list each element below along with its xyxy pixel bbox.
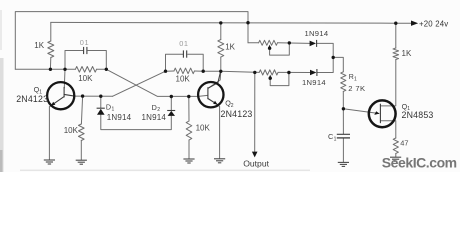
svg-text:2N4123: 2N4123 — [221, 109, 253, 119]
svg-text:2: 2 — [231, 103, 234, 109]
svg-text:D: D — [152, 103, 157, 112]
svg-text:1K: 1K — [34, 41, 44, 50]
svg-text:1: 1 — [39, 89, 42, 95]
svg-text:1: 1 — [334, 136, 337, 142]
svg-text:01: 01 — [80, 38, 89, 47]
svg-text:1N914: 1N914 — [142, 113, 167, 122]
svg-text:10K: 10K — [64, 126, 79, 135]
svg-text:1: 1 — [407, 106, 410, 112]
svg-text:SeekIC.com: SeekIC.com — [382, 154, 457, 170]
svg-text:2N4123: 2N4123 — [16, 94, 48, 104]
svg-text:10K: 10K — [196, 123, 211, 132]
svg-text:47: 47 — [400, 138, 408, 147]
svg-text:10K: 10K — [176, 74, 191, 83]
svg-text:2 7K: 2 7K — [348, 84, 365, 93]
svg-text:D: D — [106, 102, 111, 111]
svg-text:+20 24v: +20 24v — [419, 19, 448, 28]
svg-text:1: 1 — [354, 76, 357, 82]
svg-text:1N914: 1N914 — [305, 29, 329, 38]
svg-text:1N914: 1N914 — [107, 113, 132, 122]
svg-text:10K: 10K — [78, 74, 93, 83]
svg-text:1K: 1K — [402, 49, 412, 58]
svg-text:2: 2 — [157, 107, 160, 113]
svg-text:1: 1 — [112, 107, 115, 113]
svg-text:01: 01 — [179, 39, 188, 48]
svg-text:Output: Output — [243, 158, 269, 168]
svg-text:1K: 1K — [225, 43, 235, 52]
svg-text:1N914: 1N914 — [302, 78, 326, 87]
